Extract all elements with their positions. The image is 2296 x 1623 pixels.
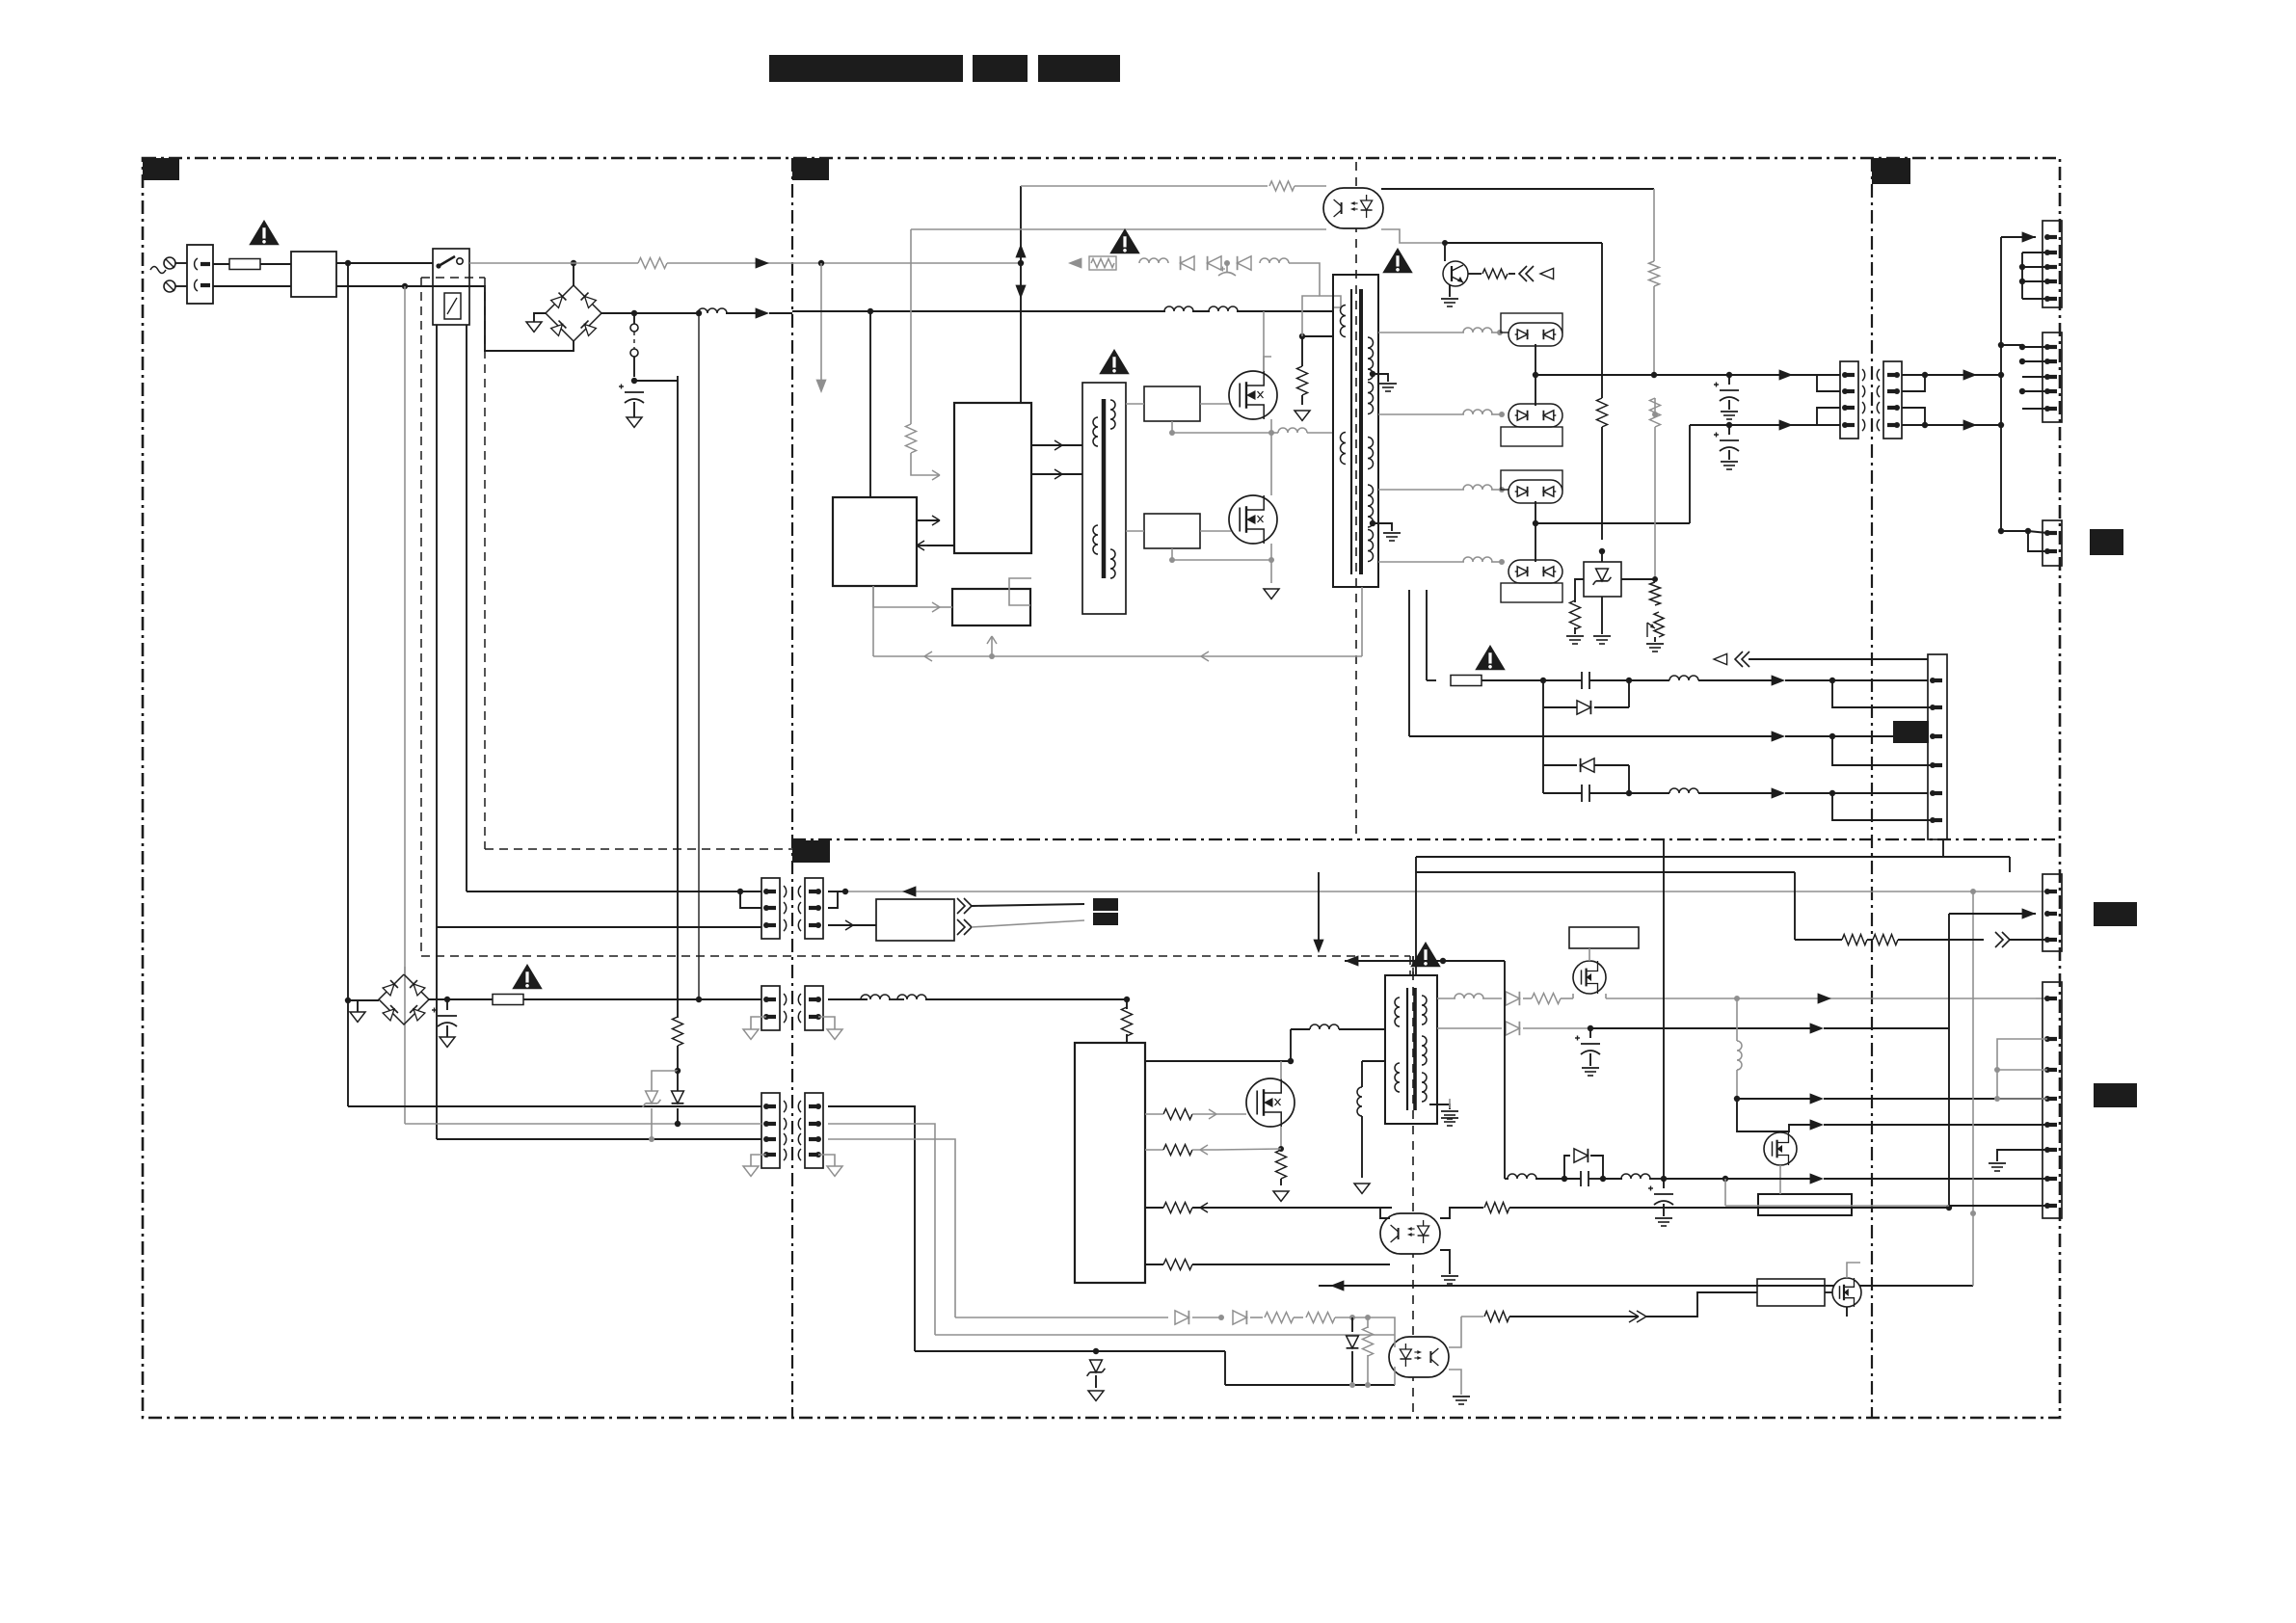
gate drive transformer T2: [1082, 383, 1126, 614]
rails onward from pair to dist bus: [1925, 374, 2001, 376]
wire: inlet N to filter: [213, 285, 291, 287]
protection line with TVS: [915, 1350, 1096, 1352]
warning triangle (hot side): [1382, 248, 1413, 273]
jumper link (open circles): [633, 313, 635, 324]
connector CN-B1 (3 pin bottom right): [2042, 874, 2062, 951]
wire: CN-AC pin2 up to node: [828, 891, 838, 908]
wire: bridge + output: [601, 312, 634, 314]
sense line y=997: [1345, 955, 1358, 966]
wire: relay to bridge node: [469, 262, 638, 264]
driver snubber box 2: [1144, 514, 1200, 548]
fuse F-audio: [1427, 679, 1436, 681]
chevron link from protection (y=1366): [1572, 1316, 1639, 1317]
gate resistor row U10-Q10: [1163, 1109, 1192, 1120]
ground stub CN-B2 pin6: [1997, 1150, 2047, 1161]
AC inlet connector J1: [187, 245, 213, 304]
standby IC U10: [1075, 1043, 1145, 1283]
node: L junction: [345, 260, 351, 266]
connector CN-AUD (8 pin): [1928, 654, 1947, 839]
wire: driver2 bottom tap: [1171, 548, 1173, 560]
vertical join module3-4: [1535, 501, 1536, 562]
wire: Q10 source + sense resistor: [1280, 1127, 1282, 1149]
diode D-vcc1: [1181, 256, 1194, 270]
wire: contact sense into pin3: [437, 926, 761, 928]
wire: into interlink pin3: [437, 1138, 761, 1140]
feedback line at bottom of converter: [873, 655, 1362, 657]
opto2 transistor side: [1449, 1317, 1461, 1347]
audio row 1: [1482, 679, 1543, 681]
link from bus to CN-R2 header: [2001, 344, 2022, 346]
connector CN-B2 (8 pin bottom right): [2042, 982, 2062, 1218]
arrow into middle section: [756, 257, 769, 268]
loop line (y=889): [1416, 856, 2010, 858]
wires: interlink right side to IC (grey): [828, 1106, 915, 1351]
row from Q21 (y=1167): [1764, 1125, 1812, 1131]
wire: U2 output to U3: [873, 586, 940, 607]
connector label CN-right-3: [2094, 902, 2137, 926]
row return (grey): [935, 1334, 1395, 1336]
saturable bead rectifier module 3: [1501, 470, 1562, 490]
optocoupler U12 (AC detect): [1389, 1337, 1449, 1377]
wire: driver1 bottom tap: [1171, 421, 1173, 433]
wire: relay coil drive into pin1: [467, 891, 761, 892]
warning triangle (standby transformer): [1410, 942, 1441, 967]
ground: secondary center tap 2: [1373, 523, 1392, 531]
protection IC U3: [952, 589, 1030, 625]
chevron row out of bottom section: [1144, 1233, 1146, 1235]
riser x=1561 to 3V3 row: [1504, 961, 1506, 1179]
MOSFET Q1 (upper): [1229, 371, 1277, 419]
long vertical: degauss feed: [698, 313, 700, 999]
housekeeping IC U2: [833, 497, 917, 586]
wire: CN-AC pin3 to box: [828, 924, 853, 926]
wire: U1 feedback input from U3: [1009, 578, 1031, 605]
wire: L to bridge top vertex: [573, 263, 574, 285]
wire: into interlink pin2 (grey): [405, 1123, 761, 1125]
inductor on VCC row: [1139, 258, 1168, 263]
row 4 to opto1: [1145, 1264, 1163, 1265]
loop feed from audio connector: [1942, 839, 1944, 857]
bleeder resistor 2 (grey): [1654, 398, 1656, 414]
vertical x=1862 from loop: [1794, 872, 1796, 940]
optocoupler U11 (standby regulation): [1380, 1213, 1440, 1254]
bus stubs CN-R2: [2022, 346, 2047, 348]
stub CN-B2 pin8: [1949, 1205, 2047, 1207]
bleeder resistor 1 (from feedback line): [1601, 243, 1603, 398]
row y=1223 continue: [1621, 1174, 1650, 1179]
grey feedback to CN-B2 area: [1725, 1205, 1949, 1207]
vertical: housekeeping supply (grey): [820, 263, 822, 381]
wire: Q10 drain up to inductor node: [1280, 1061, 1282, 1079]
wire: pin2 stub: [740, 891, 761, 908]
node: B+ reservoir: [631, 378, 637, 384]
wire: opto outputs to secondary (top): [1381, 188, 1654, 190]
connector pair CN-SB (2 pin standby link): [761, 986, 780, 1030]
wire: filter out N: [336, 285, 405, 287]
inductor drop to row3: [1736, 998, 1738, 1041]
saturable bead rectifier module 4: [1508, 560, 1562, 583]
connector label CN-right-2: [1893, 721, 1929, 743]
diode branch to pin2: [677, 1071, 679, 1091]
grey vertical x=2047 (return): [1970, 889, 1976, 894]
feedback row 3 to U10: [1145, 1207, 1163, 1209]
wire: N under-route to bridge bottom: [405, 286, 574, 351]
MOSFET Q10 (standby): [1246, 1078, 1295, 1127]
connector CN-R1 (5 pin, top right): [2042, 221, 2062, 307]
ground (bridge reference): [534, 313, 546, 322]
opto1 ground: [1440, 1250, 1450, 1274]
resistor+trimpot to ground: [1650, 582, 1661, 605]
main transformer T1: [1333, 275, 1378, 587]
ground: secondary center tap 1: [1373, 374, 1388, 382]
bridge rectifier D1 (main): [546, 285, 601, 341]
row: +5V stby (y=1140): [1737, 1098, 1812, 1100]
fuse F2 (standby): [447, 998, 493, 1000]
standby output row2: [1437, 1027, 1502, 1029]
ground: T3 secondary: [1429, 1104, 1450, 1109]
wire: standby link onward (right): [861, 995, 890, 999]
wire: VCC top rail to opto resistor: [1021, 185, 1268, 187]
smoothing cap 2 (+): [1728, 425, 1730, 435]
vertical x=2022 (connector A feed): [1948, 914, 1950, 1208]
snubber resistor at transformer: [1299, 333, 1305, 339]
row y=1223 parts: [1505, 1178, 1508, 1180]
grey return line to right: [845, 891, 2047, 892]
wire: B+ to vertical feed: [634, 380, 678, 382]
vertical x=1716 with resistor to +B rail (grey): [1653, 189, 1655, 261]
section label (top-left): [143, 158, 179, 180]
shunt resistor (opto2 in): [1367, 1317, 1369, 1328]
bypass diode row 2: [1542, 707, 1544, 765]
resistor below zener: [1574, 578, 1576, 580]
long vertical x=1726 (from audio section): [1663, 840, 1665, 1179]
ground at Q-fb: [1449, 284, 1451, 297]
standby receiver box (IR link): [876, 899, 954, 941]
wire: filter to relay switch (L): [336, 262, 433, 264]
node: L rail at x=1059: [1018, 260, 1024, 266]
inductor on VCC row (2): [1260, 258, 1289, 263]
long vertical: B+ sense to standby: [677, 376, 679, 999]
wire+resistor at Q-fb emitter: [1468, 273, 1482, 275]
resistor above U10: [1124, 997, 1130, 1002]
feeds CN-B1: [2022, 908, 2036, 918]
main +B rail (y=389): [1535, 374, 1840, 376]
secondary output row 1 (grey): [1378, 332, 1464, 333]
MOSFET Q21: [1764, 1132, 1797, 1165]
wire: opto output lower: [1381, 229, 1445, 243]
wire: feedback node to x=1662 vertical: [1445, 242, 1602, 244]
VCC supply row: arrow: [1068, 257, 1081, 268]
wire: Q2 source to gnd arrow: [1270, 544, 1272, 583]
saturable bead rectifier module 2: [1508, 404, 1562, 427]
section label (top-right): [1872, 158, 1910, 184]
wire: U10 top rail: [1145, 1060, 1291, 1062]
long vertical: phase L to bottom interlink: [347, 263, 349, 1106]
jumper brackets left connector: [1817, 375, 1840, 391]
warning triangle (gate transformer): [1099, 349, 1130, 374]
stubs CN-R3: [2001, 531, 2047, 533]
transistor Q-fb (BJT): [1444, 243, 1446, 261]
rail y=441 to connector: [1690, 424, 1840, 426]
box below Q21: [1758, 1194, 1852, 1215]
optocoupler U-fb (feedback): [1323, 188, 1383, 228]
resistor R-sb (on B+ sense): [677, 999, 679, 1018]
long vertical: relay contact sense: [436, 325, 438, 1139]
title bar (redacted): [1038, 55, 1120, 82]
small box (reference): [1757, 1279, 1825, 1306]
section divider (horizontal dash-dot y=871): [792, 838, 2060, 840]
connector pair CN-IL (4 pin interlink): [761, 1093, 780, 1168]
sense row back to U10: [1145, 1149, 1163, 1151]
secondary output row 2 (grey): [1378, 413, 1464, 415]
resistor right of opto2: [1461, 1316, 1483, 1317]
lower rail y=543 to riser: [1535, 522, 1690, 524]
chevron arrow (audio enable): [1735, 652, 1743, 667]
smoothing cap 1 (+): [1728, 375, 1730, 385]
wire: VCC row to aux winding: [1289, 263, 1341, 307]
node: L to bridge top: [571, 260, 576, 266]
feed arrow into CN-R1: [2022, 231, 2036, 242]
shunt diode (opto2 in): [1351, 1317, 1353, 1332]
fusible resistor FR1: [1089, 256, 1116, 270]
standby transformer T3: [1385, 975, 1437, 1124]
loop line top (y=905): [1416, 871, 1795, 873]
title bar (redacted): [973, 55, 1028, 82]
warning triangle (standby fuse): [512, 964, 543, 989]
wire: opto1 pins: [1380, 1208, 1392, 1218]
aux winding + arrow (T3 left): [1361, 1061, 1363, 1087]
electrolytic capacitor C-main: [625, 391, 644, 393]
cap on row2: [1589, 1028, 1591, 1038]
standby output row1 (grey): [1437, 998, 1455, 999]
ground stubs on standby pair: [751, 1017, 766, 1029]
wires into box (chevrons): [964, 898, 972, 914]
resistor right of opto1 (grey): [1484, 1203, 1509, 1213]
wire zener to pot riser: [1621, 578, 1655, 580]
resistor R-inrush (on L rail): [638, 258, 667, 269]
half-bridge node wiring: [1264, 357, 1271, 371]
wire: Q1 drain top to B+: [1263, 311, 1265, 371]
riser x=1790 to grey row: [1724, 1179, 1726, 1206]
MOSFET Q2 (lower): [1229, 495, 1277, 544]
secondary output row 4 (grey): [1378, 561, 1464, 563]
clamp feed down to T3 primary: [1415, 872, 1417, 975]
wire: opto lower-left return (crosses riser): [911, 228, 1326, 230]
wire: N into standby bridge (grey): [404, 967, 406, 974]
vertical to CN-R3: [1998, 528, 2004, 534]
wire: terminals to inlet: [175, 262, 187, 264]
bridge rectifier D2 (standby): [379, 974, 429, 1024]
AC mains terminals: [164, 257, 175, 269]
output connector pair CN-O (4 pin): [1840, 361, 1858, 439]
wire: U2 top feed: [869, 496, 871, 498]
wire: standby B+ out: [429, 998, 447, 1000]
wire: inlet to fuse: [213, 263, 229, 265]
wire: B+ rail to inverter: [634, 312, 699, 314]
stub bus CN-B2 pins2-4: [1997, 1039, 2047, 1099]
chevrons (to protection): [1519, 266, 1527, 281]
node + capacitor (VCC): [1224, 260, 1230, 266]
bypass diode over cap: [1564, 1156, 1570, 1179]
bus stubs CN-R1: [2021, 253, 2023, 299]
distribution bus x=2076: [2000, 237, 2002, 531]
PWM controller IC U1: [954, 403, 1031, 553]
hot area dashed boundary (bottom section): [421, 955, 1410, 957]
fuse F1: [229, 259, 260, 270]
ground (standby bridge): [358, 1000, 379, 1012]
vertical bus x=1059 (VCC riser): [1020, 186, 1022, 403]
section label (bottom-middle): [792, 840, 830, 863]
inductor L-res (resonant): [1271, 432, 1278, 434]
MOSFET Q20 (P-ch switch): [1573, 961, 1606, 994]
wire: into interlink pin1: [348, 1105, 761, 1107]
audio feed risers from transformer: [1408, 590, 1410, 736]
wire: AC L rail across middle (grey): [792, 262, 1021, 264]
jumper brackets right connector: [1902, 375, 1925, 391]
step down to Q21: [1737, 1099, 1764, 1131]
shunt regulator (zener box): [1584, 562, 1621, 597]
electrolytic capacitor (standby reservoir): [446, 999, 448, 1010]
warning triangle (VCC row): [1109, 228, 1140, 253]
signal label (small, to main board): [1093, 898, 1118, 911]
diode D-vcc2: [1208, 256, 1221, 270]
bypass diode row 1: [1542, 680, 1544, 707]
long vertical: phase N to bottom interlink (grey): [404, 286, 406, 1124]
warning triangle: [249, 220, 280, 245]
isolation boundary (dashed, through main transformer): [1355, 162, 1357, 839]
wire: resistor to optocoupler U-fb: [1295, 185, 1326, 187]
cap at x=1726: [1663, 1179, 1665, 1188]
wire into opto2 LED: [1390, 1317, 1395, 1335]
bottom join line: [1225, 1384, 1395, 1386]
section divider (vertical dash-dot x=822): [791, 158, 793, 1418]
vertical join module1-2: [1535, 344, 1536, 406]
ground stub interlink left pin4: [751, 1155, 766, 1166]
section divider (vertical dash-dot x=1942): [1871, 158, 1873, 1418]
connector label CN-right-4: [2094, 1083, 2137, 1107]
line y=1334 going left: [1319, 1285, 1973, 1287]
wire: U1 gate drive outputs to transformer: [1031, 444, 1070, 446]
wire: CN-AC pin1 to node: [828, 891, 845, 892]
connector label CN-right-1: [2090, 529, 2123, 555]
bottom sense row (grey) with diodes: [955, 1317, 1168, 1318]
connector pair CN-AC (3 pin interlink): [761, 878, 780, 939]
line filter L-F1: [291, 252, 336, 297]
diode D-vcc3: [1238, 256, 1251, 270]
B+ rail into transformer: [792, 310, 870, 312]
ground near T3: [1441, 1117, 1458, 1119]
wire: T2 to driver2 to Q2: [1126, 530, 1144, 532]
Q22 small mosfet: [1832, 1278, 1861, 1307]
ground arrow below cap: [633, 402, 635, 417]
vertical: B+ sense to housekeeping IC: [869, 311, 871, 497]
audio row 2 (mid rail): [1409, 735, 1774, 737]
resistor R-opto-feed: [1269, 181, 1295, 191]
connector CN-R2 (5 pin): [2042, 333, 2062, 422]
relay module dashed box: [421, 277, 485, 279]
wire: L into standby bridge (tee): [345, 998, 351, 1003]
row y=975 with resistors: [1842, 935, 1867, 945]
section label (top-middle): [792, 158, 829, 180]
arrow down x=1368: [1318, 872, 1320, 941]
wire: aux tap to snubber: [1302, 296, 1320, 336]
dashed isolation through T3 (middle): [1412, 956, 1414, 975]
saturable bead rectifier module 1: [1501, 313, 1562, 333]
wire: standby B+ through pair: [828, 998, 868, 1000]
isolation boundary (dashed, through standby transformer): [1412, 956, 1414, 1418]
wire: T2 to driver1 to Q1: [1126, 403, 1144, 405]
vertical grey x=945 with resistor to PWM: [910, 229, 912, 424]
audio row 3: [1542, 765, 1544, 793]
signal label (small, to main board): [1093, 913, 1118, 925]
board outline (dash-dot border): [143, 158, 2060, 1418]
relay RL1 (switch + coil): [433, 249, 469, 325]
driver snubber box 1: [1144, 386, 1200, 421]
arrow: B+ into middle section: [756, 307, 769, 318]
long vertical: relay coil drive: [466, 325, 467, 891]
title bar (redacted model name): [769, 55, 963, 82]
node: L rail at x=852: [818, 260, 824, 266]
inductor to standby transformer: [1290, 1029, 1292, 1061]
zener branch to pin3 (grey): [652, 1071, 678, 1091]
connector CN-R3 (2 pin): [2042, 520, 2062, 566]
stub links CN-AUD: [1832, 680, 1933, 707]
warning triangle (audio fuse): [1475, 645, 1506, 670]
zener ground: [1601, 597, 1603, 634]
wire: fuse to line filter: [260, 263, 291, 265]
secondary output row 3 (grey): [1378, 489, 1464, 491]
wire: U2 to U1 links: [917, 519, 940, 521]
placeholder box above Q20: [1569, 927, 1639, 948]
node: N junction: [402, 283, 408, 289]
ground stub interlink right pin4: [818, 1155, 835, 1166]
